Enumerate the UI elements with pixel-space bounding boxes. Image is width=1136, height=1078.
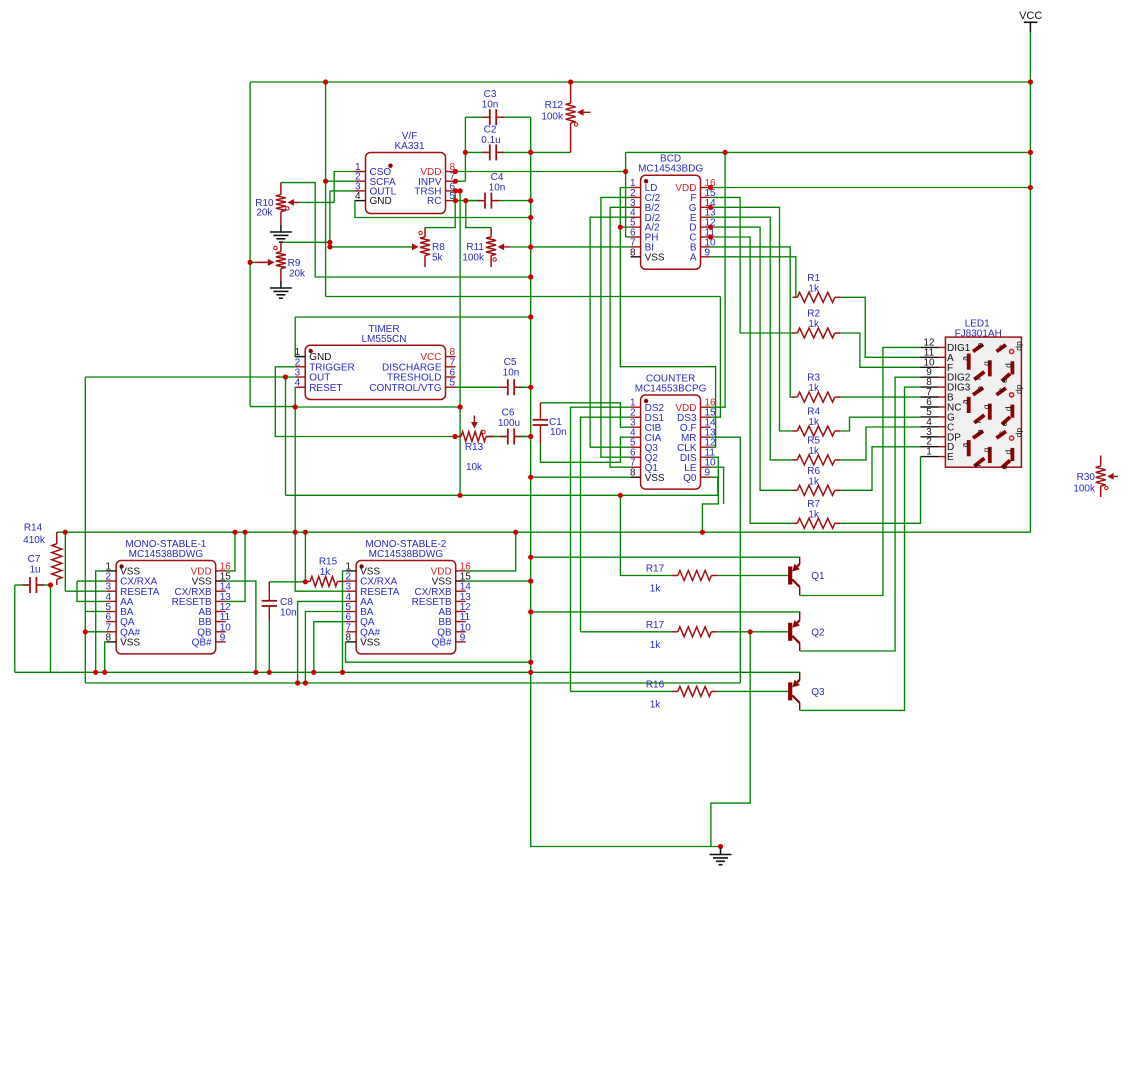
svg-text:1k: 1k: [808, 446, 820, 457]
svg-text:VCC: VCC: [1019, 10, 1042, 22]
svg-text:VSS: VSS: [120, 638, 140, 649]
svg-text:R5: R5: [807, 435, 820, 446]
svg-text:dp: dp: [1014, 384, 1024, 394]
svg-text:R17: R17: [646, 620, 665, 631]
svg-text:C4: C4: [491, 172, 504, 183]
svg-text:RC: RC: [427, 196, 441, 207]
svg-text:e: e: [999, 378, 1009, 383]
svg-text:5k: 5k: [432, 253, 444, 264]
svg-text:R16: R16: [646, 679, 665, 690]
svg-text:R12: R12: [545, 100, 564, 111]
svg-text:g: g: [981, 404, 991, 409]
svg-text:R17: R17: [646, 564, 665, 575]
svg-text:1k: 1k: [650, 584, 662, 595]
svg-text:R14: R14: [24, 523, 43, 534]
svg-text:KA331: KA331: [394, 141, 424, 152]
svg-text:R1: R1: [807, 273, 820, 284]
svg-text:10n: 10n: [482, 100, 499, 111]
svg-text:g: g: [981, 361, 991, 366]
svg-text:MC14543BDG: MC14543BDG: [638, 164, 703, 175]
svg-text:e: e: [999, 421, 1009, 426]
svg-text:Q0: Q0: [683, 473, 697, 484]
svg-text:R2: R2: [807, 309, 820, 320]
svg-text:1k: 1k: [650, 640, 662, 651]
svg-text:10n: 10n: [503, 368, 520, 379]
svg-text:b: b: [975, 386, 985, 391]
svg-text:dp: dp: [1014, 428, 1024, 438]
svg-text:R15: R15: [319, 557, 338, 568]
svg-text:R9: R9: [288, 258, 301, 269]
svg-text:FJ8301AH: FJ8301AH: [955, 329, 1002, 340]
svg-text:Q3: Q3: [811, 687, 825, 698]
svg-text:1k: 1k: [808, 509, 820, 520]
svg-text:MC14538BDWG: MC14538BDWG: [369, 549, 444, 560]
svg-text:g: g: [981, 447, 991, 452]
svg-text:R6: R6: [807, 466, 820, 477]
svg-text:a: a: [959, 399, 969, 404]
svg-text:10k: 10k: [466, 462, 483, 473]
svg-text:8: 8: [346, 632, 352, 643]
svg-text:a: a: [959, 442, 969, 447]
svg-text:d: d: [1003, 363, 1013, 368]
svg-text:e: e: [999, 465, 1009, 470]
svg-text:R11: R11: [466, 242, 484, 253]
svg-text:R3: R3: [807, 373, 820, 384]
svg-text:100k: 100k: [541, 112, 564, 123]
svg-text:9: 9: [460, 632, 466, 643]
svg-text:9: 9: [220, 632, 226, 643]
svg-text:4: 4: [355, 191, 361, 202]
svg-text:1k: 1k: [808, 476, 820, 487]
svg-text:c: c: [996, 344, 1006, 349]
svg-text:dp: dp: [1014, 341, 1024, 351]
svg-text:1k: 1k: [808, 383, 820, 394]
svg-text:b: b: [975, 429, 985, 434]
svg-text:C7: C7: [28, 554, 41, 565]
svg-text:R4: R4: [807, 407, 820, 418]
svg-text:LM555CN: LM555CN: [361, 334, 406, 345]
svg-text:VSS: VSS: [645, 473, 665, 484]
svg-text:100k: 100k: [462, 253, 485, 264]
svg-text:1k: 1k: [808, 319, 820, 330]
svg-text:C3: C3: [484, 89, 497, 100]
svg-text:410k: 410k: [23, 535, 46, 546]
svg-text:5: 5: [450, 378, 456, 389]
svg-text:Q1: Q1: [811, 571, 825, 582]
svg-text:1k: 1k: [320, 567, 332, 578]
svg-text:1u: 1u: [29, 565, 40, 576]
svg-text:9: 9: [705, 247, 711, 258]
svg-text:C5: C5: [504, 357, 517, 368]
svg-text:20k: 20k: [289, 269, 306, 280]
svg-text:8: 8: [630, 468, 636, 479]
svg-text:MC14553BCPG: MC14553BCPG: [635, 384, 707, 395]
svg-text:10n: 10n: [489, 183, 506, 194]
svg-text:QB#: QB#: [432, 638, 452, 649]
svg-text:8: 8: [630, 247, 636, 258]
svg-text:RESET: RESET: [309, 383, 342, 394]
svg-text:c: c: [996, 387, 1006, 392]
svg-text:1k: 1k: [808, 417, 820, 428]
svg-text:d: d: [1003, 449, 1013, 454]
svg-text:CONTROL/VTG: CONTROL/VTG: [369, 383, 441, 394]
svg-text:9: 9: [705, 468, 711, 479]
svg-text:VSS: VSS: [645, 252, 665, 263]
svg-text:C8: C8: [280, 597, 293, 608]
svg-text:R8: R8: [432, 242, 445, 253]
svg-text:1: 1: [926, 447, 932, 458]
svg-text:MC14538BDWG: MC14538BDWG: [129, 549, 204, 560]
svg-text:R30: R30: [1077, 472, 1096, 483]
svg-text:4: 4: [295, 378, 301, 389]
svg-text:QB#: QB#: [192, 638, 212, 649]
svg-text:100u: 100u: [498, 418, 520, 429]
svg-text:1k: 1k: [650, 699, 662, 710]
svg-text:VSS: VSS: [360, 638, 380, 649]
svg-text:100k: 100k: [1073, 484, 1096, 495]
svg-text:b: b: [975, 343, 985, 348]
svg-text:10n: 10n: [550, 427, 567, 438]
svg-text:d: d: [1003, 406, 1013, 411]
svg-text:E: E: [947, 452, 954, 463]
svg-text:10n: 10n: [280, 608, 297, 619]
svg-text:C2: C2: [484, 125, 497, 136]
svg-text:R7: R7: [807, 499, 820, 510]
svg-text:A: A: [690, 252, 697, 263]
svg-text:C6: C6: [502, 408, 515, 419]
svg-text:8: 8: [106, 632, 112, 643]
svg-text:0.1u: 0.1u: [481, 135, 500, 146]
svg-text:a: a: [959, 356, 969, 361]
svg-text:c: c: [996, 430, 1006, 435]
svg-text:Q2: Q2: [811, 627, 825, 638]
svg-text:20k: 20k: [256, 208, 273, 219]
svg-text:1k: 1k: [808, 283, 820, 294]
svg-text:R13: R13: [465, 442, 484, 453]
svg-text:GND: GND: [370, 196, 392, 207]
